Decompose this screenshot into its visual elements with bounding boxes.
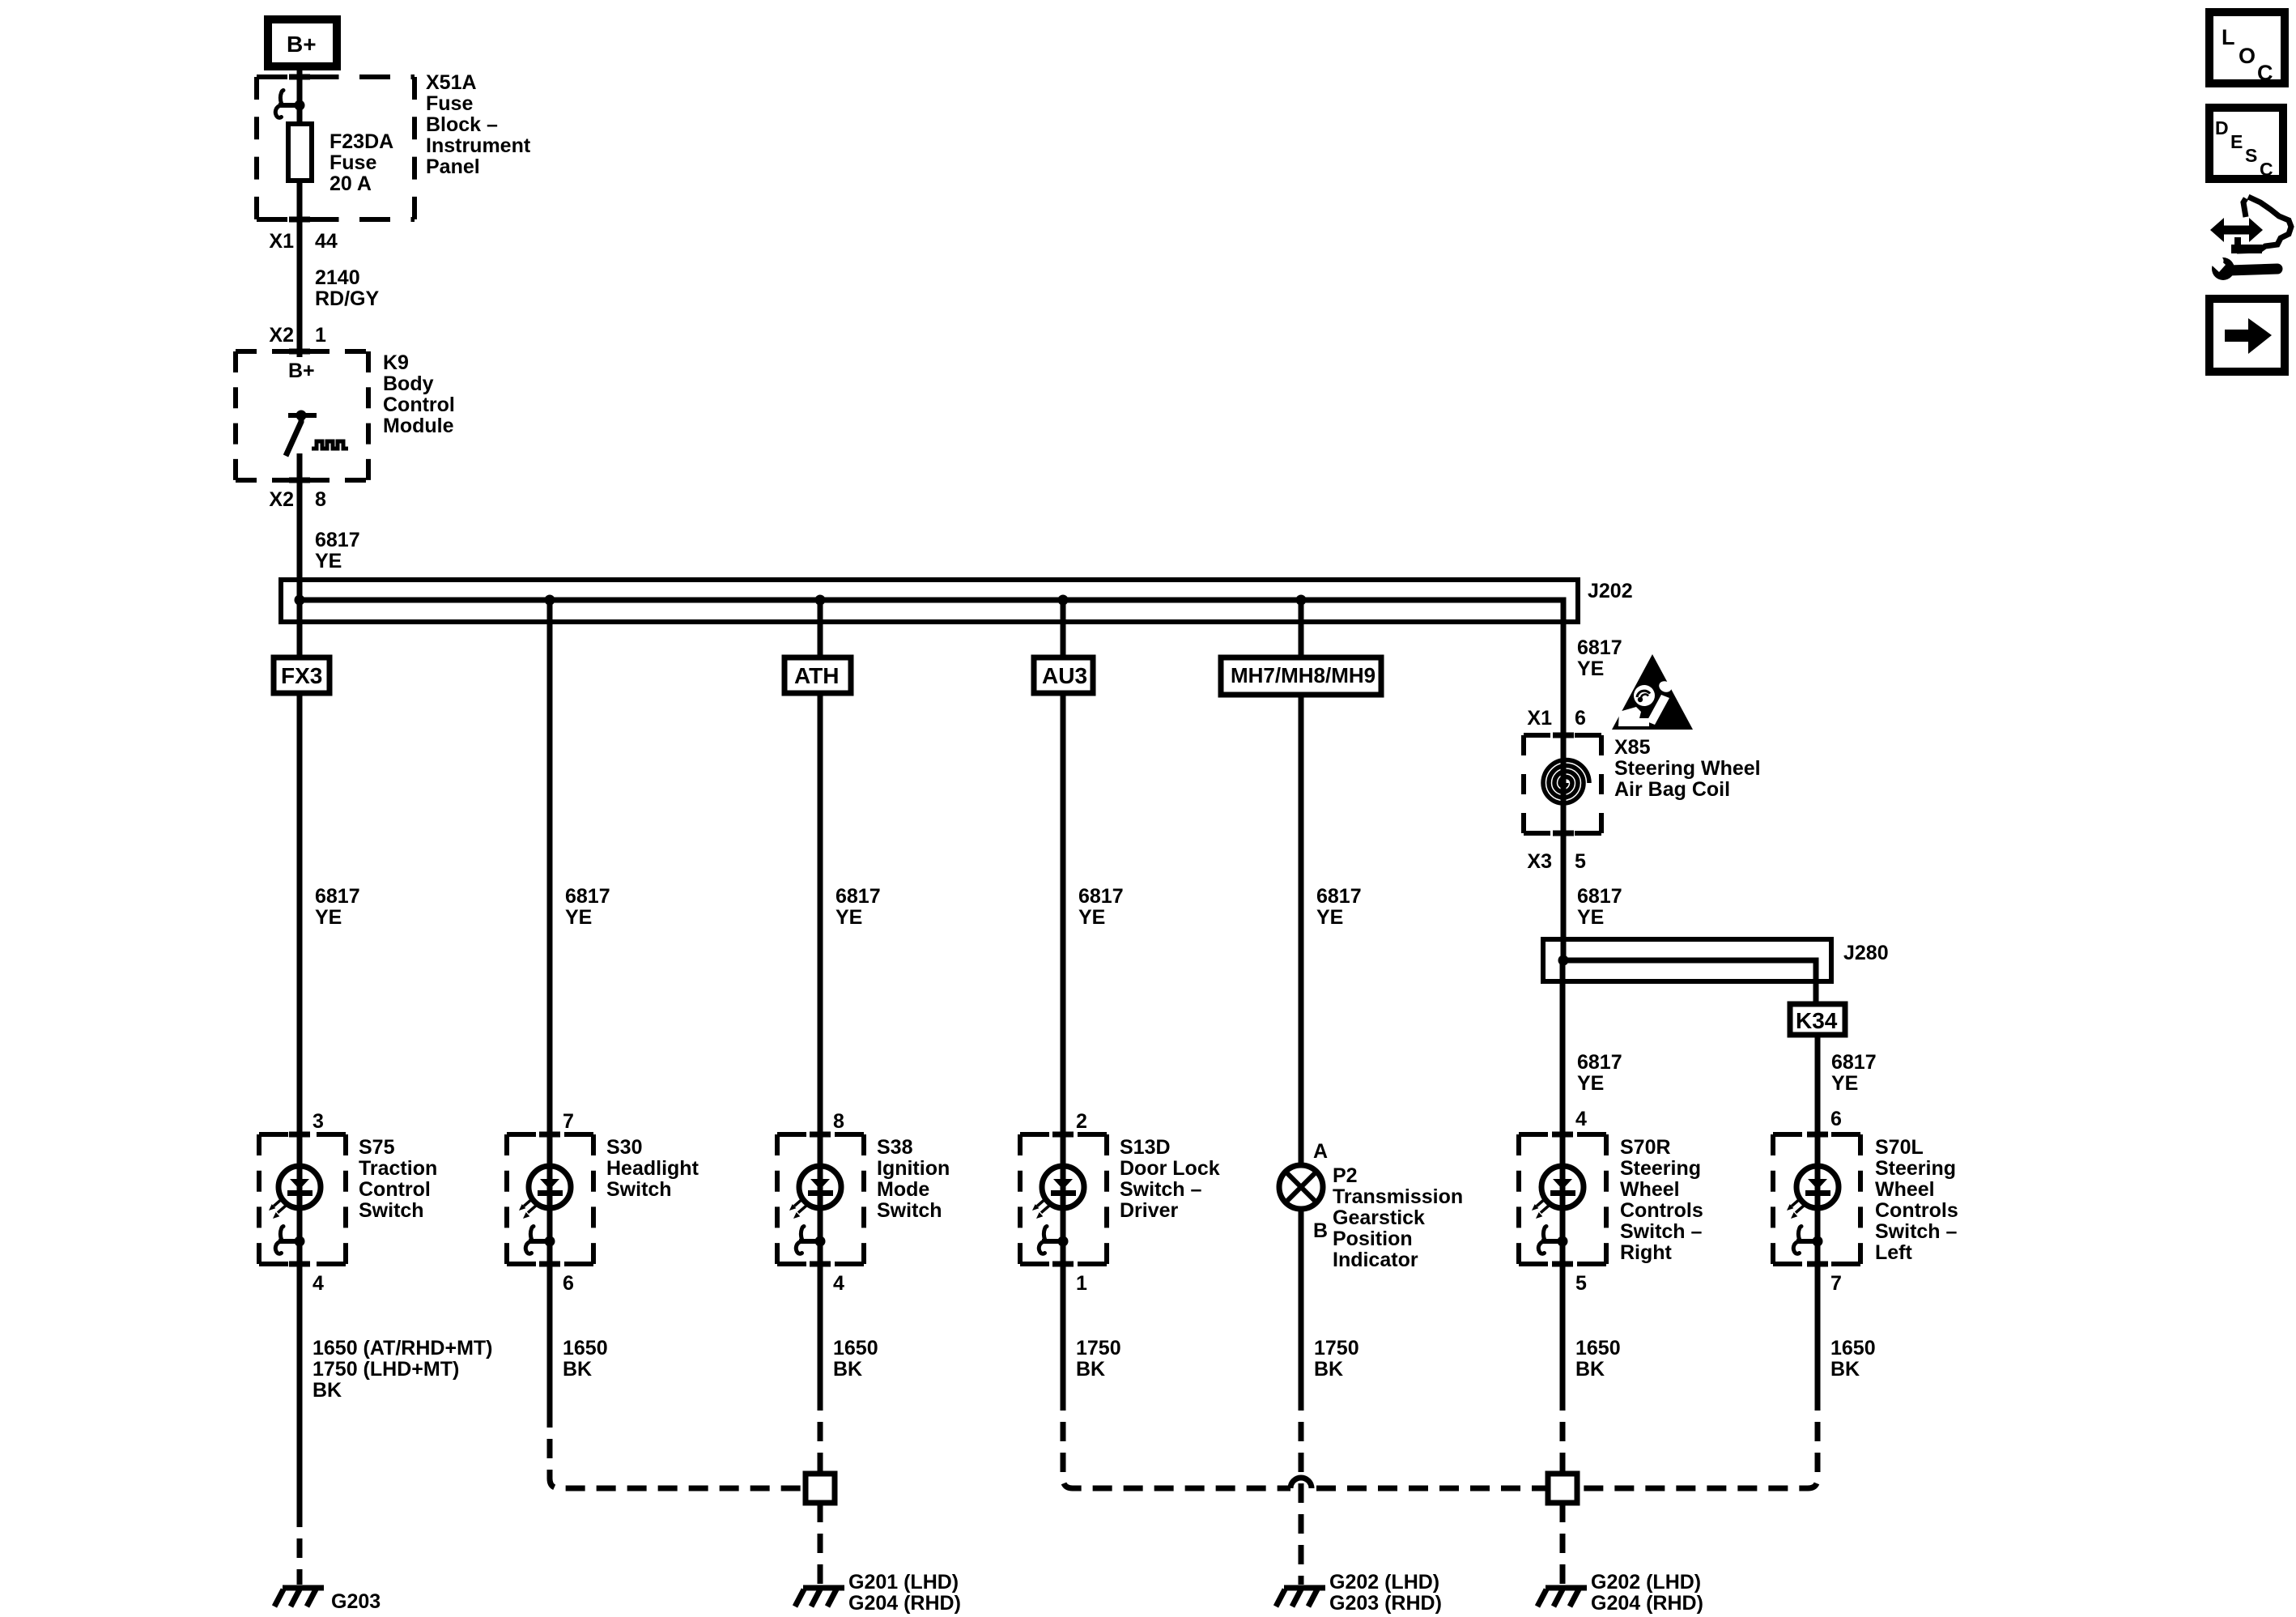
label S70L Steering Wheel Controls Switch Left [1875, 1136, 1958, 1264]
svg-text:G202 (LHD): G202 (LHD) [1591, 1571, 1701, 1594]
svg-text:Fuse: Fuse [426, 92, 473, 115]
svg-text:A: A [1313, 1140, 1328, 1163]
svg-text:S70R: S70R [1620, 1136, 1671, 1159]
pin label X1 6 [1527, 707, 1586, 730]
svg-text:F23DA: F23DA [330, 130, 393, 153]
label J202 [1588, 580, 1633, 602]
air bag coil spiral X85 [1543, 760, 1589, 804]
svg-text:G202 (LHD): G202 (LHD) [1329, 1571, 1439, 1594]
dashed wire S70R to splice [1560, 1391, 1566, 1474]
wire through X85 coil [1561, 735, 1567, 833]
label 1650 BK column 7 [1830, 1337, 1876, 1381]
svg-text:E: E [2230, 131, 2243, 152]
svg-text:6817: 6817 [315, 885, 360, 908]
pin tick X51A top [289, 74, 310, 80]
pin tick K9 bottom [289, 478, 310, 483]
svg-text:S75: S75 [359, 1136, 395, 1159]
switch S38 Ignition Mode Switch [777, 1132, 864, 1267]
svg-text:Control: Control [383, 394, 455, 416]
label 6817 YE below K34 column 7 [1831, 1051, 1877, 1095]
ground G202 (LHD) / G203 (RHD) [1276, 1588, 1325, 1606]
wire MH7/MH8/MH9 to P2 pin A [1299, 695, 1304, 1167]
svg-text:BK: BK [1076, 1358, 1105, 1381]
pin 6 of S70L [1830, 1108, 1842, 1130]
svg-text:6817: 6817 [315, 529, 360, 551]
splice pack J202 [281, 580, 1578, 735]
svg-text:BK: BK [563, 1358, 592, 1381]
pin 7 of S30 [563, 1110, 574, 1133]
pin 8 of S38 [833, 1110, 844, 1133]
svg-text:Door Lock: Door Lock [1120, 1157, 1220, 1180]
label S75 Traction Control Switch [359, 1136, 437, 1222]
svg-text:RD/GY: RD/GY [315, 287, 380, 310]
svg-text:Switch –: Switch – [1875, 1220, 1958, 1243]
svg-text:4: 4 [1575, 1108, 1587, 1130]
pin B of P2 [1313, 1219, 1328, 1242]
svg-text:BK: BK [1830, 1358, 1860, 1381]
svg-text:Headlight: Headlight [606, 1157, 699, 1180]
svg-text:S38: S38 [877, 1136, 913, 1159]
svg-text:G204 (RHD): G204 (RHD) [848, 1592, 961, 1615]
connector AU3 [1034, 657, 1093, 693]
svg-text:AU3: AU3 [1042, 663, 1087, 688]
svg-text:7: 7 [1830, 1272, 1842, 1295]
svg-text:Body: Body [383, 372, 434, 395]
svg-text:YE: YE [1577, 906, 1604, 929]
svg-text:8: 8 [315, 488, 326, 511]
svg-text:G201 (LHD): G201 (LHD) [848, 1571, 959, 1594]
svg-text:Indicator: Indicator [1333, 1249, 1418, 1271]
wire J202 to MH7/MH8/MH9 [1299, 600, 1304, 661]
air bag warning triangle [1612, 654, 1693, 730]
svg-text:B+: B+ [287, 32, 317, 57]
dashed wire to ground G203 [297, 1508, 303, 1585]
pin tick X85 bottom [1553, 831, 1574, 836]
svg-text:20 A: 20 A [330, 172, 372, 195]
svg-text:YE: YE [1577, 657, 1604, 680]
svg-text:Module: Module [383, 415, 454, 437]
wire FX3 to S75 pin 3 [297, 693, 303, 1134]
dashed wire S30 to splice at G201 [550, 1408, 806, 1488]
wire B+ to fuse F23DA [297, 66, 303, 123]
connector MH7/MH8/MH9 [1221, 657, 1381, 695]
switch S70L Steering Wheel Controls Switch Left [1773, 1132, 1860, 1267]
label 6817 YE [315, 529, 360, 572]
label 6817 YE above J280 [1577, 885, 1622, 929]
label G202 (LHD) G203 (RHD) [1329, 1571, 1442, 1615]
svg-text:X85: X85 [1614, 736, 1651, 759]
wire ATH to S38 pin 8 [818, 693, 823, 1134]
svg-text:Driver: Driver [1120, 1199, 1179, 1222]
svg-text:Steering Wheel: Steering Wheel [1614, 757, 1761, 780]
pin 6 of S30 [563, 1272, 574, 1295]
svg-text:44: 44 [315, 230, 338, 253]
svg-text:X51A: X51A [426, 71, 477, 94]
svg-text:Steering: Steering [1875, 1157, 1956, 1180]
svg-text:S70L: S70L [1875, 1136, 1924, 1159]
svg-text:K9: K9 [383, 351, 409, 374]
label G201 (LHD) G204 (RHD) [848, 1571, 961, 1615]
svg-text:B+: B+ [288, 360, 315, 382]
svg-text:YE: YE [565, 906, 592, 929]
wire X85 to J280 6817 YE [1561, 833, 1567, 960]
svg-text:5: 5 [1575, 1272, 1587, 1295]
dashed wire P2 to ground G202/G203 [1299, 1391, 1304, 1585]
splice of steering wheel switch grounds [1548, 1474, 1577, 1503]
pin 2 of S13D [1076, 1110, 1087, 1133]
dashed wire splice to ground G202/G204 [1560, 1503, 1566, 1585]
svg-text:J280: J280 [1843, 942, 1889, 964]
wire S13D pin 1 down 1750 BK [1061, 1264, 1066, 1391]
label 1650 BK column 6 [1575, 1337, 1621, 1381]
svg-text:Position: Position [1333, 1228, 1413, 1250]
ground G203 [274, 1588, 324, 1606]
svg-text:6817: 6817 [1831, 1051, 1877, 1074]
svg-text:J202: J202 [1588, 580, 1633, 602]
svg-text:6: 6 [1830, 1108, 1842, 1130]
svg-text:Block –: Block – [426, 113, 498, 136]
connector clip at fuse input [275, 91, 304, 118]
label P2 Transmission Gearstick Position Indicator [1333, 1164, 1463, 1271]
svg-text:Switch: Switch [606, 1178, 672, 1201]
svg-text:BK: BK [833, 1358, 862, 1381]
pin 3 of S75 [313, 1110, 324, 1133]
pin 4 of S38 [833, 1272, 844, 1295]
wire S75 pin 4 down 1650/1750 BK [297, 1264, 303, 1508]
label J280 [1843, 942, 1889, 964]
dashed wire S70L to splice [1577, 1391, 1818, 1488]
svg-text:Steering: Steering [1620, 1157, 1701, 1180]
junction dot J202 tap 3 [815, 595, 826, 606]
svg-text:X2: X2 [269, 324, 294, 347]
svg-text:Panel: Panel [426, 155, 480, 178]
svg-text:YE: YE [315, 906, 342, 929]
svg-text:Gearstick: Gearstick [1333, 1206, 1425, 1229]
svg-text:1650: 1650 [833, 1337, 878, 1360]
svg-text:Switch –: Switch – [1120, 1178, 1202, 1201]
label 1750 BK column 5 [1314, 1337, 1359, 1381]
lamp P2 Transmission Gearstick Position Indicator [1279, 1165, 1323, 1209]
label F23DA Fuse 20 A [330, 130, 393, 195]
svg-text:Switch: Switch [877, 1199, 942, 1222]
pin 5 of S70R [1575, 1272, 1587, 1295]
label S70R Steering Wheel Controls Switch Right [1620, 1136, 1703, 1264]
svg-text:6817: 6817 [1577, 885, 1622, 908]
connector FX3 [274, 657, 330, 693]
label S13D Door Lock Switch Driver [1120, 1136, 1220, 1222]
relay K9 switch contact [286, 411, 317, 457]
switch S30 Headlight Switch [507, 1132, 593, 1267]
svg-text:YE: YE [1316, 906, 1343, 929]
svg-text:X3: X3 [1527, 850, 1552, 873]
label 6817 YE column 3 [835, 885, 881, 929]
wire AU3 to S13D pin 2 [1061, 693, 1066, 1134]
svg-text:8: 8 [833, 1110, 844, 1133]
label 1650 BK column 3 [833, 1337, 878, 1381]
svg-text:1750 (LHD+MT): 1750 (LHD+MT) [313, 1358, 459, 1381]
svg-text:MH7/MH8/MH9: MH7/MH8/MH9 [1231, 663, 1375, 687]
svg-text:Switch: Switch [359, 1199, 424, 1222]
wire fuse to X51A pin 44 [297, 181, 303, 247]
svg-text:G204 (RHD): G204 (RHD) [1591, 1592, 1703, 1615]
splice pack J280 [1543, 939, 1831, 1004]
label 1750 BK column 4 [1076, 1337, 1121, 1381]
svg-text:S: S [2245, 145, 2257, 166]
wire J202 to ATH [818, 600, 823, 661]
dashed wire splice to ground G201/G204 [818, 1503, 823, 1585]
pin 7 of S70L [1830, 1272, 1842, 1295]
svg-text:Right: Right [1620, 1241, 1673, 1264]
relay K9 coil [312, 441, 348, 449]
splice of S30/S38 grounds [806, 1474, 835, 1503]
wire J280 to S70R pin 4 [1560, 960, 1566, 1134]
label 6817 YE above X85 [1577, 636, 1622, 680]
connector ATH [784, 657, 851, 693]
wire J202 to S30 pin 7 [547, 600, 553, 1134]
switch S75 Traction Control Switch [259, 1132, 346, 1267]
pin label X3 5 [1527, 850, 1586, 873]
svg-text:6817: 6817 [1577, 1051, 1622, 1074]
svg-text:X1: X1 [269, 230, 294, 253]
svg-text:G203: G203 [331, 1590, 381, 1613]
svg-text:2140: 2140 [315, 266, 360, 289]
svg-text:6817: 6817 [1078, 885, 1124, 908]
svg-text:P2: P2 [1333, 1164, 1358, 1187]
pin 1 of S13D [1076, 1272, 1087, 1295]
svg-text:3: 3 [313, 1110, 324, 1133]
svg-text:Instrument: Instrument [426, 134, 531, 157]
pin label X2 8 [269, 488, 326, 511]
svg-text:BK: BK [1314, 1358, 1343, 1381]
svg-text:2: 2 [1076, 1110, 1087, 1133]
pin label X1 44 [269, 230, 337, 253]
label X51A Fuse Block - Instrument Panel [426, 71, 531, 178]
label X85 Steering Wheel Air Bag Coil [1614, 736, 1761, 801]
svg-text:B: B [1313, 1219, 1328, 1242]
svg-text:Air Bag Coil: Air Bag Coil [1614, 778, 1730, 801]
svg-text:Transmission: Transmission [1333, 1185, 1463, 1208]
svg-text:6817: 6817 [565, 885, 610, 908]
svg-text:C: C [2257, 61, 2273, 85]
svg-text:1: 1 [315, 324, 326, 347]
label 6817 YE below J280 column 6 [1577, 1051, 1622, 1095]
svg-text:YE: YE [835, 906, 862, 929]
wire relay output [297, 453, 303, 502]
svg-text:Ignition: Ignition [877, 1157, 950, 1180]
svg-text:S13D: S13D [1120, 1136, 1171, 1159]
junction dot J202 tap 1 [295, 595, 305, 606]
svg-text:K34: K34 [1796, 1008, 1838, 1033]
svg-text:G203 (RHD): G203 (RHD) [1329, 1592, 1442, 1615]
svg-text:Controls: Controls [1620, 1199, 1703, 1222]
wire into relay contact [297, 351, 303, 357]
svg-text:Traction: Traction [359, 1157, 437, 1180]
svg-text:ATH: ATH [794, 663, 839, 688]
pin label X2 1 [269, 324, 326, 347]
svg-text:1650: 1650 [1830, 1337, 1876, 1360]
wire S38 pin 4 down 1650 BK [818, 1264, 823, 1391]
svg-text:Control: Control [359, 1178, 431, 1201]
svg-text:5: 5 [1575, 850, 1586, 873]
ground G201 (LHD) / G204 (RHD) [795, 1588, 844, 1606]
connector X85 Steering Wheel Air Bag Coil dashed box [1524, 735, 1601, 833]
pin tick X51A bottom [289, 217, 310, 223]
switch S70R Steering Wheel Controls Switch Right [1519, 1132, 1606, 1267]
label 6817 YE column 4 [1078, 885, 1124, 929]
svg-text:6817: 6817 [1577, 636, 1622, 659]
svg-text:6: 6 [1575, 707, 1586, 730]
svg-text:BK: BK [313, 1379, 342, 1402]
label G202 (LHD) G204 (RHD) right [1591, 1571, 1703, 1615]
svg-text:YE: YE [315, 550, 342, 572]
svg-text:YE: YE [1577, 1072, 1604, 1095]
svg-text:Wheel: Wheel [1875, 1178, 1935, 1201]
pin 4 of S70R [1575, 1108, 1587, 1130]
svg-text:6817: 6817 [835, 885, 881, 908]
svg-text:1650: 1650 [1575, 1337, 1621, 1360]
label 1650 (AT/RHD+MT) 1750 (LHD+MT) BK [313, 1337, 493, 1402]
ground G202 (LHD) / G204 (RHD) right [1537, 1588, 1587, 1606]
svg-text:YE: YE [1078, 906, 1105, 929]
label 6817 YE column 1 [315, 885, 360, 929]
svg-text:1650 (AT/RHD+MT): 1650 (AT/RHD+MT) [313, 1337, 493, 1360]
label G203 [331, 1590, 381, 1613]
svg-text:1750: 1750 [1314, 1337, 1359, 1360]
label 6817 YE column 2 [565, 885, 610, 929]
node B+ inside K9 [288, 360, 315, 382]
power feed B+ [268, 19, 337, 66]
wire 2140 RD/GY [297, 247, 303, 351]
connector K34 [1790, 1004, 1845, 1035]
svg-text:Controls: Controls [1875, 1199, 1958, 1222]
svg-text:6817: 6817 [1316, 885, 1362, 908]
label 6817 YE column 5 [1316, 885, 1362, 929]
icon schematic arrow box [2209, 299, 2285, 372]
svg-text:D: D [2215, 117, 2229, 138]
wire P2 pin B down [1299, 1209, 1304, 1391]
svg-text:BK: BK [1575, 1358, 1605, 1381]
junction dot J202 tap 4 [1058, 595, 1069, 606]
svg-text:C: C [2260, 159, 2273, 180]
pin tick X85 top [1553, 733, 1574, 738]
svg-text:1: 1 [1076, 1272, 1087, 1295]
svg-text:L: L [2222, 25, 2235, 49]
svg-text:4: 4 [313, 1272, 324, 1295]
svg-text:Wheel: Wheel [1620, 1178, 1680, 1201]
icon DESC box [2209, 108, 2283, 180]
svg-text:Fuse: Fuse [330, 151, 376, 174]
icon LOC box [2209, 12, 2285, 85]
junction dot J202 tap 2 [545, 595, 555, 606]
svg-text:Mode: Mode [877, 1178, 929, 1201]
pin A of P2 [1313, 1140, 1328, 1163]
svg-text:S30: S30 [606, 1136, 642, 1159]
svg-text:1750: 1750 [1076, 1337, 1121, 1360]
svg-text:4: 4 [833, 1272, 844, 1295]
junction dot J202 tap 5 [1296, 595, 1307, 606]
wire S30 pin 6 down 1650 BK [547, 1264, 553, 1408]
icon connector repair tool [2207, 197, 2291, 280]
label 1650 BK column 2 [563, 1337, 608, 1381]
dashed wire S13D to splice at S70R with hop over P2 wire [1063, 1391, 1548, 1488]
label 2140 RD/GY [315, 266, 380, 310]
wire K34 to S70L pin 6 [1815, 1035, 1821, 1134]
wire 6817 YE from K9 to splice J202 [297, 502, 303, 600]
svg-text:Switch –: Switch – [1620, 1220, 1703, 1243]
svg-text:X1: X1 [1527, 707, 1552, 730]
svg-text:X2: X2 [269, 488, 294, 511]
svg-text:6: 6 [563, 1272, 574, 1295]
relay K9 Body Control Module dashed box [236, 351, 368, 480]
label S30 Headlight Switch [606, 1136, 699, 1201]
svg-text:FX3: FX3 [281, 663, 322, 688]
svg-text:YE: YE [1831, 1072, 1858, 1095]
label S38 Ignition Mode Switch [877, 1136, 950, 1222]
label K9 Body Control Module [383, 351, 455, 437]
fuse F23DA [288, 124, 312, 181]
svg-text:Left: Left [1875, 1241, 1913, 1264]
wire S70R pin 5 down 1650 BK [1560, 1264, 1566, 1391]
fuse block X51A dashed box [257, 77, 415, 219]
wire J202 to AU3 [1061, 600, 1066, 661]
dashed wire S38 to splice [818, 1391, 823, 1474]
pin 4 of S75 [313, 1272, 324, 1295]
svg-text:7: 7 [563, 1110, 574, 1133]
svg-text:O: O [2239, 44, 2256, 68]
switch S13D Door Lock Switch Driver [1020, 1132, 1107, 1267]
wire S70L pin 7 down 1650 BK [1815, 1264, 1821, 1391]
pin tick K9 top [289, 349, 310, 355]
wire J202 to FX3 [297, 600, 303, 661]
svg-text:1650: 1650 [563, 1337, 608, 1360]
